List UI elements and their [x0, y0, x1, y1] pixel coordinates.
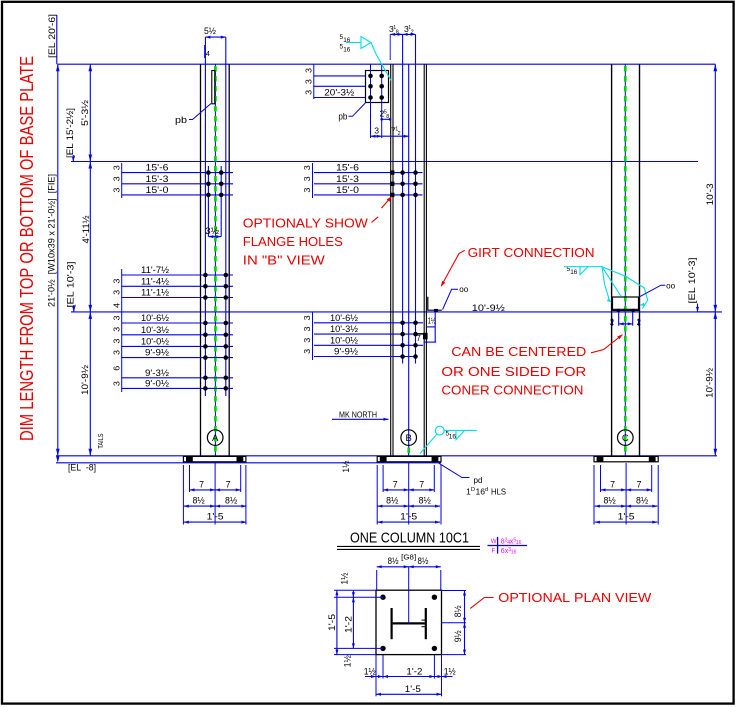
svg-text:ONE COLUMN 10C1: ONE COLUMN 10C1 — [350, 531, 469, 547]
svg-text:3: 3 — [303, 176, 312, 182]
plan anchor bolts — [380, 595, 385, 600]
column A gauge lines — [204, 37, 206, 396]
column C left flange — [611, 64, 613, 456]
column B gauge lines — [402, 34, 404, 363]
column A right flange — [228, 64, 230, 456]
svg-text:1'-5: 1'-5 — [400, 512, 417, 522]
svg-text:10'-3½: 10'-3½ — [141, 325, 169, 335]
svg-text:10'-6½: 10'-6½ — [330, 313, 358, 323]
svg-text:3: 3 — [113, 289, 122, 295]
clip B dim bracket — [434, 312, 436, 342]
svg-text:3: 3 — [113, 326, 122, 332]
svg-text:7: 7 — [199, 480, 204, 490]
svg-text:OPTIONAL PLAN VIEW: OPTIONAL PLAN VIEW — [498, 590, 652, 605]
svg-text:OPTIONALY SHOW: OPTIONALY SHOW — [243, 216, 369, 231]
svg-text:8½: 8½ — [225, 496, 238, 506]
svg-text:pd: pd — [474, 476, 483, 485]
plate B gauge lines — [370, 64, 372, 138]
plate pb on column A — [212, 71, 215, 104]
right dim line — [714, 64, 716, 456]
chain ext line B lower — [312, 312, 314, 360]
svg-text:2: 2 — [398, 131, 401, 137]
plate pb on column B — [366, 71, 389, 103]
svg-text:15'-0: 15'-0 — [146, 185, 169, 195]
svg-text:7: 7 — [637, 480, 642, 490]
column B centerline — [408, 64, 410, 456]
svg-text:16: 16 — [343, 47, 351, 54]
svg-text:3: 3 — [113, 349, 122, 355]
anchor bolt leader — [439, 463, 470, 477]
svg-text:8½: 8½ — [192, 496, 205, 506]
svg-text:20'-3½: 20'-3½ — [324, 87, 354, 97]
svg-text:TAILS: TAILS — [96, 433, 105, 448]
svg-text:10'-3½: 10'-3½ — [330, 324, 358, 334]
svg-text:3: 3 — [303, 337, 312, 343]
svg-text:1½: 1½ — [343, 655, 353, 668]
dim line 21-0.5 overall — [57, 64, 59, 456]
column A centerline blue — [214, 64, 216, 456]
svg-text:1½: 1½ — [428, 316, 436, 325]
svg-text:oo: oo — [666, 282, 676, 291]
svg-text:1'-5: 1'-5 — [618, 512, 635, 522]
svg-text:3: 3 — [303, 326, 312, 332]
svg-text:oo: oo — [459, 285, 469, 294]
svg-text:4: 4 — [206, 49, 210, 58]
svg-text:3: 3 — [113, 176, 122, 182]
plan view base plate outline — [376, 590, 442, 654]
svg-text:3: 3 — [113, 380, 122, 386]
column A centerline green dashed — [214, 66, 217, 453]
leader pb B — [349, 103, 366, 116]
svg-text:16: 16 — [511, 550, 517, 556]
column A 15ft hole rows — [122, 172, 233, 174]
svg-text:3: 3 — [305, 89, 314, 95]
EL -8 line — [56, 462, 441, 464]
node A bubble — [207, 430, 223, 446]
base plate dims — [189, 465, 191, 492]
svg-text:6: 6 — [113, 365, 122, 371]
svg-text:1½: 1½ — [364, 667, 377, 677]
girt clip B — [428, 297, 442, 310]
svg-text:3: 3 — [303, 315, 312, 321]
svg-text:9'-9½: 9'-9½ — [145, 348, 169, 358]
dim chain line left — [89, 64, 91, 456]
svg-text:10'-0½: 10'-0½ — [141, 336, 169, 346]
svg-text:DIM LENGTH FROM TOP OR BOTTOM: DIM LENGTH FROM TOP OR BOTTOM OF BASE PL… — [16, 56, 37, 441]
svg-text:5'-3½: 5'-3½ — [80, 100, 90, 126]
plan centerline vertical — [408, 567, 410, 624]
svg-text:7: 7 — [419, 480, 424, 490]
svg-text:7: 7 — [416, 334, 420, 343]
plan left dims — [334, 589, 376, 591]
column C right flange — [639, 64, 641, 456]
chain ext line A 15ft — [121, 163, 123, 198]
svg-text:8½: 8½ — [453, 605, 463, 618]
svg-text:4: 4 — [113, 302, 122, 308]
EL 15-2.5 line — [71, 161, 698, 163]
column B lower hole rows — [314, 322, 423, 324]
svg-text:1½: 1½ — [341, 460, 351, 473]
svg-text:3: 3 — [303, 187, 312, 193]
node C bubble — [618, 430, 634, 446]
svg-text:D: D — [471, 487, 475, 493]
svg-text:3: 3 — [303, 165, 312, 171]
svg-text:15'-0: 15'-0 — [336, 185, 359, 195]
svg-text:[EL 10'-3]: [EL 10'-3] — [687, 258, 697, 304]
red arrow to B flange hole — [382, 197, 392, 208]
svg-text:15'-6: 15'-6 — [146, 163, 169, 173]
svg-text:3: 3 — [305, 78, 314, 84]
chain ext line B 15ft — [312, 163, 314, 198]
svg-text:CONER CONNECTION: CONER CONNECTION — [441, 383, 583, 398]
svg-text:1'-2: 1'-2 — [343, 616, 353, 633]
svg-text:3: 3 — [113, 315, 122, 321]
column A lower hole rows — [122, 274, 233, 276]
svg-text:3: 3 — [113, 187, 122, 193]
svg-text:3: 3 — [305, 67, 314, 73]
chain ext line A lower — [121, 269, 123, 392]
svg-text:2: 2 — [610, 318, 614, 327]
svg-text:8½: 8½ — [418, 556, 430, 566]
svg-text:A: A — [212, 433, 219, 444]
svg-text:9'-0½: 9'-0½ — [145, 378, 169, 388]
chain ext line B plate — [313, 64, 315, 99]
svg-text:21'-0½ [W10x39 x 21'-0½] [FI: 21'-0½ [W10x39 x 21'-0½] [FIE] — [47, 174, 57, 307]
svg-text:10'-6½: 10'-6½ — [141, 313, 169, 323]
girt C dims 2 2 — [612, 319, 614, 326]
plan bottom dims — [382, 655, 384, 679]
column A left flange — [200, 64, 202, 456]
svg-text:8: 8 — [386, 114, 389, 120]
base plate dims — [600, 465, 602, 492]
svg-text:pb: pb — [338, 111, 347, 121]
weld symbol base B — [435, 426, 444, 435]
svg-text:3: 3 — [113, 338, 122, 344]
plan right dims — [442, 590, 467, 592]
svg-text:d: d — [485, 487, 488, 493]
EL 10-3 line — [71, 311, 716, 313]
dim 2-5/8 below plate B — [382, 118, 391, 120]
svg-text:C: C — [622, 433, 629, 444]
column B green stub at base — [407, 448, 410, 456]
svg-text:16: 16 — [516, 540, 522, 546]
svg-text:[G8]: [G8] — [401, 553, 416, 562]
svg-text:OR ONE SIDED FOR: OR ONE SIDED FOR — [441, 364, 586, 379]
baseline top of base plates — [56, 455, 717, 457]
svg-text:15'-6: 15'-6 — [336, 163, 359, 173]
svg-text:3: 3 — [374, 126, 379, 136]
svg-text:8½: 8½ — [603, 496, 616, 506]
plate B bolt rows — [314, 75, 366, 77]
svg-text:8½: 8½ — [419, 496, 432, 506]
weld leaders girt C — [602, 267, 610, 301]
svg-text:9'-3½: 9'-3½ — [145, 368, 169, 378]
svg-text:8½: 8½ — [388, 556, 400, 566]
svg-text:[EL 10'-3]: [EL 10'-3] — [65, 262, 75, 308]
svg-text:B: B — [406, 433, 412, 444]
clip B bolt row mark — [417, 333, 424, 335]
svg-text:7: 7 — [393, 480, 398, 490]
column B right flange lines — [423, 64, 425, 456]
svg-text:1½: 1½ — [340, 572, 350, 585]
svg-text:3½: 3½ — [205, 226, 220, 236]
svg-text:1'-5: 1'-5 — [327, 614, 337, 631]
svg-text:1½: 1½ — [444, 667, 457, 677]
svg-text:15'-3: 15'-3 — [336, 174, 359, 184]
svg-text:16: 16 — [570, 269, 578, 276]
svg-text:10'-9½: 10'-9½ — [705, 368, 715, 398]
svg-text:11'-1½: 11'-1½ — [141, 288, 169, 298]
svg-text:1'-5: 1'-5 — [207, 512, 224, 522]
svg-text:1'-5: 1'-5 — [405, 684, 421, 694]
svg-text:HLS: HLS — [491, 486, 506, 496]
svg-text:9'-9½: 9'-9½ — [334, 347, 358, 357]
svg-text:11'-4½: 11'-4½ — [141, 276, 169, 286]
svg-text:10'-3: 10'-3 — [705, 183, 715, 205]
svg-text:8½: 8½ — [386, 496, 399, 506]
column C centerline green dashed — [624, 66, 627, 453]
column B left flange lines — [390, 64, 392, 456]
dim 5.5 top of A — [205, 36, 225, 38]
svg-text:[EL 20'-6]: [EL 20'-6] — [47, 14, 57, 58]
leader pb A — [189, 104, 211, 120]
svg-text:W: W — [491, 538, 497, 545]
girt connection plate C — [613, 297, 639, 311]
svg-text:2: 2 — [411, 30, 414, 36]
svg-text:IN "B" VIEW: IN "B" VIEW — [243, 252, 326, 267]
base plate — [594, 456, 658, 461]
svg-text:9½: 9½ — [453, 630, 463, 643]
base plate dims — [382, 465, 384, 492]
column C centerline blue — [624, 64, 626, 456]
column B 15ft hole rows — [314, 172, 423, 174]
plan top dim 8.5 G8 8.5 — [376, 570, 378, 590]
dim 3-1/8 3-1/2 top of B — [390, 33, 415, 35]
svg-text:5½: 5½ — [204, 26, 216, 36]
svg-text:pb: pb — [175, 115, 187, 125]
svg-text:16: 16 — [449, 434, 457, 441]
svg-text:16: 16 — [343, 37, 351, 44]
svg-text:8: 8 — [396, 30, 399, 36]
size table W F — [497, 537, 499, 554]
svg-text:7: 7 — [226, 480, 231, 490]
svg-text:15'-3: 15'-3 — [146, 174, 169, 184]
svg-text:10'-9½: 10'-9½ — [472, 303, 505, 313]
svg-text:[EL 15'-2½]: [EL 15'-2½] — [65, 108, 75, 158]
svg-text:16: 16 — [476, 486, 486, 496]
svg-text:10'-9½: 10'-9½ — [80, 365, 90, 395]
svg-text:7: 7 — [610, 480, 615, 490]
svg-text:MK NORTH: MK NORTH — [339, 411, 377, 420]
svg-text:2: 2 — [637, 318, 641, 327]
svg-text:3: 3 — [303, 348, 312, 354]
node B bubble — [401, 430, 417, 446]
svg-text:[EL -8]: [EL -8] — [68, 463, 96, 473]
base plate — [377, 456, 441, 461]
base plate — [183, 456, 246, 461]
svg-text:FLANGE HOLES: FLANGE HOLES — [243, 234, 343, 249]
svg-text:10'-0½: 10'-0½ — [330, 335, 358, 345]
plan column I-section — [391, 608, 393, 639]
svg-text:4'-11½: 4'-11½ — [81, 215, 91, 243]
dim 3 and 7.5 below plate B — [371, 135, 409, 137]
svg-text:CAN BE CENTERED: CAN BE CENTERED — [451, 344, 586, 359]
svg-text:1'-2: 1'-2 — [406, 667, 422, 677]
dim 3.5 mid A — [208, 236, 221, 238]
svg-text:3: 3 — [113, 278, 122, 284]
svg-text:F: F — [492, 548, 496, 555]
EL 20-6 line — [58, 63, 716, 65]
svg-text:GIRT CONNECTION: GIRT CONNECTION — [468, 245, 595, 260]
column A hole gauge lines — [207, 166, 209, 237]
svg-text:3: 3 — [113, 165, 122, 171]
svg-text:8½: 8½ — [636, 496, 649, 506]
svg-text:11'-7½: 11'-7½ — [141, 265, 169, 275]
